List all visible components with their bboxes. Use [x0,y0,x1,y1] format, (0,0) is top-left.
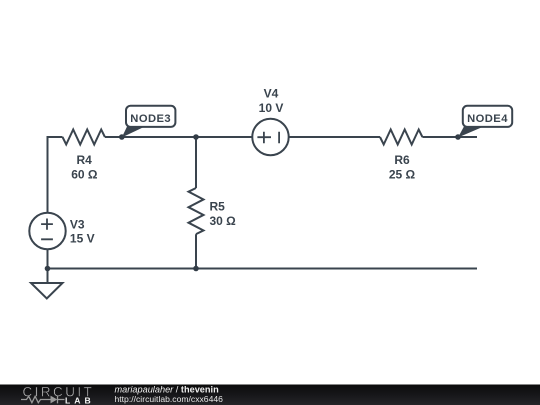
wire middle vertical lower [195,234,197,268]
node junction R5 top [193,134,199,140]
wire V4 to R6 [289,136,381,138]
node junction bottom left [45,266,51,272]
footer url line [115,394,224,404]
CircuitLab logo resistor squiggle [21,396,51,402]
svg-text:V4: V4 [264,87,279,101]
svg-text:60 Ω: 60 Ω [71,167,98,181]
footer bar [0,385,540,405]
svg-text:30 Ω: 30 Ω [210,214,237,228]
wire R4 to V4 [105,136,253,138]
voltage source V4 [252,87,288,156]
svg-text:R4: R4 [77,153,93,167]
ground [31,283,63,299]
resistor R4 [63,130,105,182]
wire bottom rail [48,268,478,270]
svg-text:NODE4: NODE4 [467,113,508,125]
svg-text:R6: R6 [394,153,410,167]
svg-text:LAB: LAB [65,395,95,405]
footer author line [115,384,220,394]
node NODE4 label [458,106,512,138]
resistor R6 [380,130,422,182]
resistor R5 [189,188,237,234]
svg-text:mariapaulaher / thevenin: mariapaulaher / thevenin [115,384,220,394]
svg-text:V3: V3 [70,217,85,231]
svg-text:25 Ω: 25 Ω [389,167,416,181]
CircuitLab logo wordmark CIRCUIT [23,384,95,399]
svg-text:NODE3: NODE3 [130,113,171,125]
node NODE4 dot [455,134,461,140]
CircuitLab logo diode [51,396,65,404]
CircuitLab logo wordmark LAB [65,395,95,405]
wire middle vertical upper [195,137,197,188]
svg-text:R5: R5 [210,200,226,214]
node junction R5 bottom [193,266,199,272]
wire top-left corner [48,137,63,214]
voltage source V3 [29,213,94,249]
svg-text:10 V: 10 V [259,101,284,115]
wire V3 to ground [47,248,49,283]
svg-text:15 V: 15 V [70,232,95,246]
svg-text:http://circuitlab.com/cxx6446: http://circuitlab.com/cxx6446 [115,394,224,404]
node NODE3 label [122,106,176,138]
wire R6 to NODE4 [422,136,477,138]
node NODE3 dot [119,134,125,140]
